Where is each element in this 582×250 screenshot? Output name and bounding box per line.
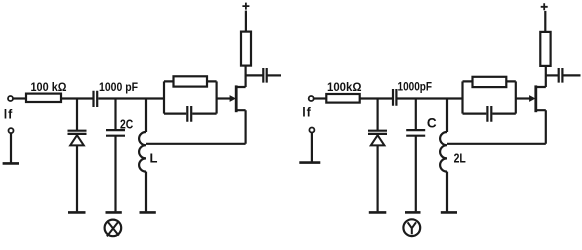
inductor L coil (left): [139, 132, 146, 172]
wire source feedback to inductor tap (left): [146, 143, 246, 145]
drain resistor (left): [241, 32, 251, 66]
svg-text:1000 pF: 1000 pF: [99, 82, 138, 94]
wire diode to ground (left): [76, 145, 78, 211]
wire supply to resistor (left): [245, 11, 247, 32]
wire series capacitor to crystal network (left): [98, 97, 164, 99]
output capacitor plates (right): [559, 68, 563, 83]
wire terminal to ground (right): [311, 133, 313, 162]
X glyph: [107, 222, 119, 236]
circled Y marker: [403, 219, 420, 236]
gate arrow (left JFET): [230, 95, 236, 102]
plus supply symbol (left): [242, 3, 249, 10]
parallel capacitor plates of crystal (left): [187, 106, 191, 122]
plus supply symbol (right): [541, 3, 548, 10]
source lead (right): [536, 110, 546, 144]
wire input to resistor (right): [314, 97, 326, 99]
svg-text:L: L: [150, 150, 158, 165]
wire bottom branch (right): [463, 112, 516, 114]
ground under input terminal (right): [299, 161, 320, 164]
wire top branch to crystal box (right): [463, 80, 516, 82]
gate arrow (right JFET): [529, 95, 535, 102]
resistor 100 kOhm (right): [326, 94, 359, 103]
wire diode branch drop (right): [377, 99, 379, 131]
svg-text:lf: lf: [302, 106, 311, 120]
crystal network left vertical (left): [163, 81, 165, 113]
varactor diode triangle (left): [70, 135, 84, 145]
drain lead (left): [236, 66, 245, 87]
varactor diode triangle (right): [371, 135, 385, 145]
source lead (left): [236, 110, 245, 144]
inductor 2L coil (right): [440, 132, 447, 172]
series capacitor 1000 pF plates (right): [393, 89, 396, 106]
input ground terminal circle (left): [9, 128, 14, 133]
wire inductor branch drop (left): [145, 99, 147, 133]
varactor diode (left): double cathode bar: [68, 131, 87, 134]
svg-text:C: C: [427, 116, 437, 131]
ground under diode (right): [369, 211, 387, 214]
input terminal (left circuit): [8, 96, 13, 101]
Y glyph: [408, 222, 416, 234]
wire diode to ground (right): [377, 145, 379, 211]
JFET channel bar (right): [534, 85, 537, 112]
capacitor 2C plates (left): [106, 130, 125, 136]
output capacitor plates (left): [263, 68, 266, 83]
capacitor C plates (right): [406, 130, 425, 136]
ground under 2C (left): [106, 211, 122, 214]
drain resistor (right): [540, 32, 550, 66]
ground under diode (left): [68, 211, 86, 214]
crystal network right vertical (right): [515, 81, 517, 113]
wire top branch to crystal box (left): [164, 80, 217, 82]
ground under inductor (left): [140, 211, 156, 214]
svg-text:lf: lf: [4, 108, 13, 122]
wire crystal to gate (right): [516, 97, 531, 99]
drain lead (right): [536, 66, 546, 87]
svg-text:2L: 2L: [454, 150, 466, 165]
wire inductor to ground (left): [145, 172, 147, 212]
input terminal (right circuit): [309, 96, 314, 101]
resistor 100 kOhm (left): [26, 94, 61, 102]
wire series capacitor to crystal network (right): [398, 97, 463, 99]
wire C branch drop (right): [415, 99, 417, 130]
input ground terminal circle (right): [309, 128, 314, 133]
wire drain to output capacitor (left): [246, 74, 263, 76]
JFET channel bar (left): [235, 85, 238, 112]
wire 2C branch drop (left): [114, 99, 116, 130]
ground under inductor (right): [441, 211, 457, 214]
crystal network left vertical (right): [461, 81, 463, 113]
output wire (left): [267, 74, 281, 76]
parallel capacitor plates of crystal (right): [487, 106, 491, 122]
svg-text:1000pF: 1000pF: [398, 81, 433, 93]
circled X marker: [105, 220, 122, 237]
wire inductor branch drop (right): [446, 99, 448, 133]
wire bottom branch (left): [164, 112, 217, 114]
wire diode branch drop (left): [76, 99, 78, 131]
crystal box (left): [174, 76, 208, 86]
wire resistor to series capacitor (right): [360, 97, 393, 99]
svg-text:100 kΩ: 100 kΩ: [31, 82, 67, 94]
wire C to ground (right): [415, 136, 417, 211]
wire drain to output capacitor (right): [546, 74, 558, 76]
ground under input terminal (left): [3, 162, 19, 165]
wire supply to resistor (right): [544, 11, 546, 32]
wire terminal to ground (left): [10, 133, 12, 163]
wire inductor to ground (right): [446, 172, 448, 212]
wire source feedback to inductor tap (right): [447, 143, 546, 145]
svg-text:100kΩ: 100kΩ: [327, 82, 362, 94]
crystal box (right): [473, 77, 507, 87]
wire input to resistor: [13, 97, 26, 99]
series capacitor 1000 pF plates (left): [94, 91, 98, 107]
crystal network right vertical (left): [216, 81, 218, 113]
svg-text:2C: 2C: [120, 116, 134, 131]
wire 2C to ground (left): [114, 136, 116, 211]
wire resistor to series capacitor: [61, 97, 93, 99]
varactor diode (right): double cathode bar: [368, 131, 387, 134]
output wire (right): [563, 74, 580, 76]
wire crystal to gate (left): [217, 97, 231, 99]
ground under C (right): [405, 211, 421, 214]
